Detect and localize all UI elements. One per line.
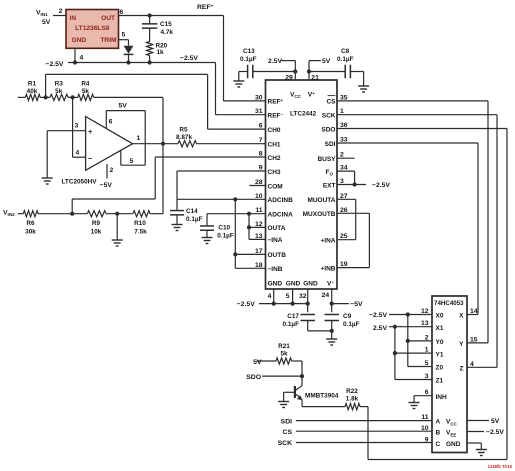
- svg-text:LTC2050HV: LTC2050HV: [62, 179, 98, 186]
- svg-text:9: 9: [425, 437, 429, 444]
- svg-text:SCK: SCK: [278, 440, 292, 447]
- svg-text:2: 2: [425, 334, 429, 341]
- svg-text:1k: 1k: [157, 49, 165, 56]
- svg-text:+: +: [88, 127, 93, 136]
- svg-text:−5V: −5V: [100, 182, 113, 189]
- svg-text:C10: C10: [218, 225, 230, 232]
- svg-text:33: 33: [340, 137, 348, 144]
- svg-text:30: 30: [255, 94, 263, 101]
- svg-text:11: 11: [421, 414, 428, 421]
- svg-text:C: C: [436, 441, 441, 448]
- svg-text:10: 10: [421, 425, 429, 432]
- svg-text:OUTB: OUTB: [268, 252, 287, 259]
- svg-text:2: 2: [110, 167, 114, 174]
- svg-text:26: 26: [340, 207, 348, 214]
- svg-text:5k: 5k: [82, 88, 90, 95]
- svg-text:0.1µF: 0.1µF: [343, 321, 360, 328]
- svg-text:COM: COM: [268, 183, 283, 190]
- svg-text:40k: 40k: [27, 88, 38, 95]
- svg-text:1: 1: [340, 108, 344, 115]
- svg-text:19: 19: [340, 261, 348, 268]
- svg-text:3: 3: [340, 178, 344, 185]
- svg-text:10k: 10k: [91, 228, 102, 235]
- svg-text:CH3: CH3: [268, 169, 281, 176]
- svg-text:+INA: +INA: [321, 238, 336, 245]
- svg-text:−2.5V: −2.5V: [369, 312, 387, 319]
- svg-text:13: 13: [421, 320, 429, 327]
- svg-text:5: 5: [425, 360, 429, 367]
- svg-text:LTC2442: LTC2442: [290, 111, 317, 118]
- svg-text:4: 4: [76, 150, 80, 157]
- svg-text:8: 8: [259, 151, 263, 158]
- svg-text:Y1: Y1: [436, 351, 444, 358]
- svg-text:5k: 5k: [55, 88, 63, 95]
- svg-text:12: 12: [255, 221, 263, 228]
- svg-text:A: A: [436, 419, 441, 426]
- svg-text:C8: C8: [341, 48, 350, 55]
- svg-text:−INA: −INA: [268, 237, 283, 244]
- svg-text:3: 3: [425, 373, 429, 380]
- svg-text:R1: R1: [28, 81, 37, 88]
- svg-text:1: 1: [425, 347, 429, 354]
- svg-text:14: 14: [470, 308, 478, 315]
- svg-text:5V: 5V: [253, 359, 262, 366]
- svg-text:BUSY: BUSY: [317, 156, 336, 163]
- svg-text:CH1: CH1: [268, 142, 281, 149]
- svg-text:INH: INH: [436, 394, 448, 401]
- svg-text:SDO: SDO: [246, 374, 261, 381]
- svg-text:7.5k: 7.5k: [134, 228, 147, 235]
- svg-text:0.1µF: 0.1µF: [186, 216, 203, 223]
- svg-text:R9: R9: [92, 220, 101, 227]
- svg-text:6: 6: [120, 9, 124, 16]
- svg-text:74HC4053: 74HC4053: [434, 300, 464, 307]
- svg-text:2.5V: 2.5V: [373, 325, 387, 332]
- svg-text:31: 31: [255, 108, 263, 115]
- svg-text:3: 3: [75, 123, 79, 130]
- svg-text:4: 4: [268, 293, 272, 300]
- svg-text:SDI: SDI: [281, 418, 292, 425]
- svg-text:CH0: CH0: [268, 127, 281, 134]
- svg-text:0.1µF: 0.1µF: [240, 56, 257, 63]
- svg-text:TRIM: TRIM: [100, 37, 117, 44]
- svg-text:−2.5V: −2.5V: [486, 429, 504, 436]
- svg-text:R22: R22: [346, 388, 358, 395]
- svg-text:ADCINA: ADCINA: [268, 212, 294, 219]
- svg-text:GND: GND: [303, 281, 318, 288]
- svg-text:1: 1: [137, 135, 141, 142]
- svg-text:6: 6: [109, 119, 113, 126]
- svg-text:CH2: CH2: [268, 155, 281, 162]
- svg-text:−: −: [88, 154, 93, 163]
- svg-text:GND: GND: [268, 281, 283, 288]
- svg-text:C17: C17: [287, 313, 299, 320]
- svg-text:Z0: Z0: [436, 365, 444, 372]
- svg-text:5V: 5V: [119, 103, 128, 110]
- svg-text:MUOUTA: MUOUTA: [307, 197, 335, 204]
- svg-text:27: 27: [340, 193, 348, 200]
- svg-text:−INB: −INB: [268, 266, 283, 273]
- svg-text:X: X: [459, 313, 464, 320]
- svg-text:−2.5V: −2.5V: [372, 182, 390, 189]
- svg-text:CS: CS: [326, 99, 336, 106]
- svg-text:GND: GND: [286, 281, 301, 288]
- svg-text:25: 25: [340, 233, 348, 240]
- svg-text:Z1: Z1: [436, 378, 444, 385]
- svg-text:5: 5: [130, 158, 134, 165]
- svg-text:5: 5: [122, 32, 126, 39]
- svg-text:LT1236LS8: LT1236LS8: [75, 25, 110, 32]
- svg-text:4: 4: [470, 361, 474, 368]
- svg-text:11: 11: [255, 207, 262, 214]
- svg-text:R5: R5: [179, 127, 188, 134]
- svg-text:Y0: Y0: [436, 339, 444, 346]
- svg-text:21: 21: [311, 74, 319, 81]
- svg-text:12: 12: [421, 308, 429, 315]
- svg-text:−5V: −5V: [350, 301, 363, 308]
- svg-text:6: 6: [425, 389, 429, 396]
- svg-text:4.7k: 4.7k: [161, 29, 174, 36]
- svg-text:R6: R6: [26, 220, 35, 227]
- svg-text:OUT: OUT: [101, 15, 115, 22]
- svg-text:MUXOUTB: MUXOUTB: [303, 211, 336, 218]
- svg-text:Y: Y: [459, 341, 464, 348]
- svg-text:30k: 30k: [25, 228, 36, 235]
- svg-text:5V: 5V: [322, 58, 331, 65]
- svg-text:17: 17: [255, 248, 263, 255]
- svg-text:5k: 5k: [280, 351, 288, 358]
- svg-text:32: 32: [299, 293, 307, 300]
- svg-text:5V: 5V: [42, 19, 51, 26]
- svg-text:9: 9: [259, 165, 263, 172]
- svg-text:OUTA: OUTA: [268, 225, 286, 232]
- svg-text:24: 24: [322, 292, 330, 299]
- svg-text:0.1µF: 0.1µF: [217, 232, 234, 239]
- svg-text:−2.5V: −2.5V: [46, 61, 64, 68]
- svg-text:2: 2: [59, 8, 63, 15]
- svg-text:1.8k: 1.8k: [346, 395, 359, 402]
- svg-text:+INB: +INB: [321, 265, 336, 272]
- svg-text:36: 36: [340, 122, 348, 129]
- svg-text:7: 7: [259, 137, 263, 144]
- svg-text:R21: R21: [278, 343, 290, 350]
- svg-text:8.87k: 8.87k: [176, 134, 192, 141]
- svg-text:ADCINB: ADCINB: [268, 197, 294, 204]
- svg-text:5: 5: [286, 293, 290, 300]
- svg-text:R3: R3: [55, 81, 64, 88]
- svg-text:SCK: SCK: [322, 113, 336, 120]
- svg-text:EXT: EXT: [323, 182, 336, 189]
- svg-text:Z: Z: [460, 366, 464, 373]
- svg-text:SDI: SDI: [325, 141, 336, 148]
- svg-text:SDO: SDO: [321, 126, 335, 133]
- svg-text:0.1µF: 0.1µF: [283, 321, 300, 328]
- svg-text:0.1µF: 0.1µF: [337, 56, 354, 63]
- svg-text:R4: R4: [81, 81, 90, 88]
- svg-text:6: 6: [259, 123, 263, 130]
- svg-text:28: 28: [255, 179, 263, 186]
- svg-text:2.5V: 2.5V: [268, 58, 282, 65]
- svg-text:−2.5V: −2.5V: [180, 55, 198, 62]
- svg-text:18: 18: [255, 262, 263, 269]
- svg-text:GND: GND: [72, 37, 87, 44]
- svg-text:C9: C9: [343, 313, 352, 320]
- svg-text:R10: R10: [134, 220, 146, 227]
- svg-text:B: B: [436, 430, 441, 437]
- svg-text:1236fb TA10: 1236fb TA10: [488, 464, 513, 469]
- svg-text:15: 15: [470, 336, 478, 343]
- svg-text:C14: C14: [186, 208, 198, 215]
- svg-text:−2.5V: −2.5V: [237, 301, 255, 308]
- svg-text:34: 34: [340, 165, 348, 172]
- svg-text:X1: X1: [436, 325, 444, 332]
- svg-text:C15: C15: [160, 21, 172, 28]
- svg-text:CS: CS: [283, 429, 293, 436]
- svg-text:2: 2: [340, 152, 344, 159]
- svg-text:GND: GND: [446, 441, 461, 448]
- svg-text:29: 29: [285, 74, 293, 81]
- svg-text:IN: IN: [70, 15, 77, 22]
- svg-text:10: 10: [255, 193, 263, 200]
- svg-text:C13: C13: [243, 48, 255, 55]
- svg-text:X0: X0: [436, 313, 444, 320]
- svg-text:MMBT3904: MMBT3904: [305, 392, 339, 399]
- svg-text:4: 4: [80, 55, 84, 62]
- svg-text:5V: 5V: [491, 418, 500, 425]
- svg-text:35: 35: [340, 94, 348, 101]
- svg-text:13: 13: [255, 233, 263, 240]
